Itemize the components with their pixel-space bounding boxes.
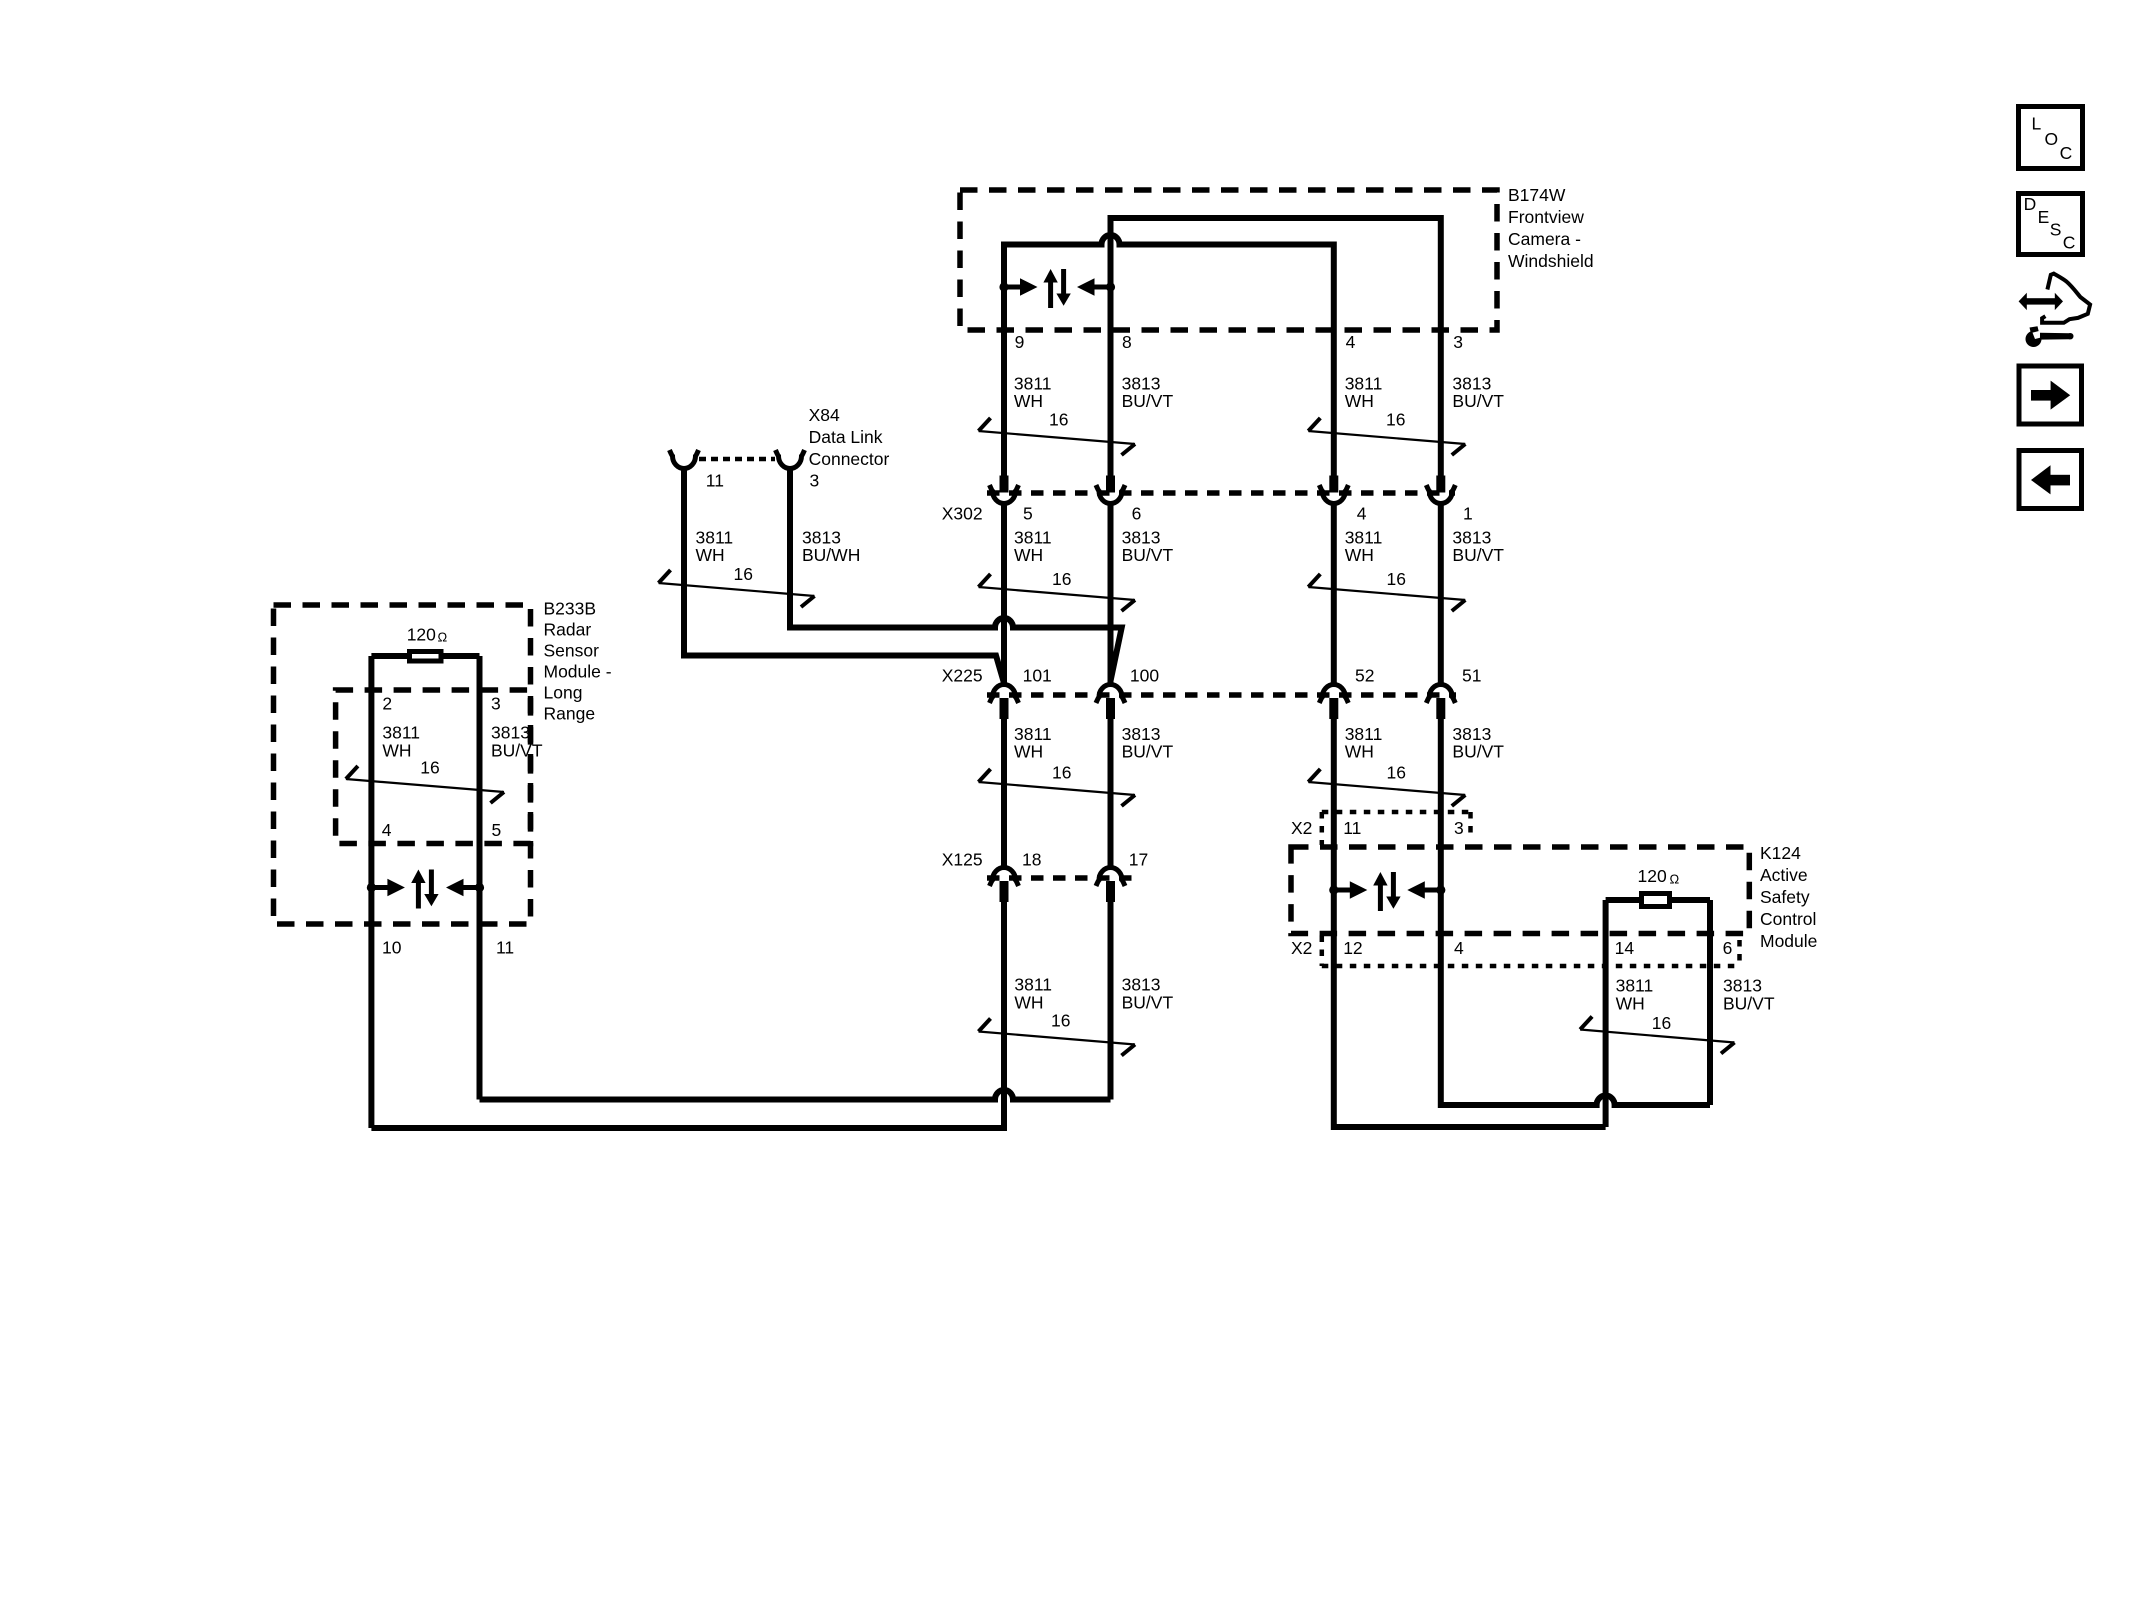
svg-text:51: 51 <box>1462 665 1481 685</box>
svg-text:BU/VT: BU/VT <box>1122 545 1174 565</box>
svg-text:BU/VT: BU/VT <box>491 740 543 760</box>
twisted pair symbol row C right <box>1308 769 1465 806</box>
X84 body dashed line <box>699 457 775 462</box>
wire 3811 WH from X84.11 to X225.101 <box>684 467 1004 684</box>
svg-text:Connector: Connector <box>809 449 890 469</box>
svg-text:100: 100 <box>1130 665 1159 685</box>
svg-text:1: 1 <box>1463 503 1473 523</box>
svg-text:Safety: Safety <box>1760 887 1810 907</box>
svg-text:4: 4 <box>1346 332 1356 352</box>
svg-text:Ω: Ω <box>438 630 448 645</box>
twisted pair symbol row A left <box>979 418 1136 455</box>
svg-text:14: 14 <box>1615 938 1635 958</box>
twisted pair symbol X84 pair <box>659 570 815 607</box>
svg-text:16: 16 <box>1386 409 1405 429</box>
X302 pin 6 terminal <box>1096 476 1141 524</box>
connector X125 dashed line <box>987 875 1140 881</box>
wire 3813 BU/VT B233B pin3 to pin11 and bottom loop <box>477 656 483 1100</box>
svg-text:BU/VT: BU/VT <box>1122 992 1174 1012</box>
icon vehicle data exchange with wrench <box>2019 274 2091 347</box>
svg-text:16: 16 <box>1052 762 1071 782</box>
svg-text:16: 16 <box>420 758 439 778</box>
X125 pin 18 terminal <box>990 849 1042 902</box>
svg-text:WH: WH <box>1616 993 1645 1013</box>
wire 3811 WH X225.101 to X125.18 <box>1001 719 1007 866</box>
wire 3811 WH X125.18 down to bottom left loop <box>371 902 1004 1128</box>
svg-text:3: 3 <box>810 470 820 490</box>
svg-text:BU/VT: BU/VT <box>1122 741 1174 761</box>
svg-text:3813: 3813 <box>491 722 530 742</box>
X302 pin 5 terminal <box>990 476 1033 524</box>
svg-text:WH: WH <box>1345 741 1374 761</box>
icon LOC box <box>2019 107 2083 169</box>
svg-text:Active: Active <box>1760 865 1808 885</box>
svg-text:WH: WH <box>1014 391 1043 411</box>
twisted pair symbol K124 pair <box>1580 1017 1734 1054</box>
svg-text:WH: WH <box>1345 391 1374 411</box>
component K124 Active Safety Control Module dashed box <box>1291 847 1749 934</box>
svg-text:6: 6 <box>1132 503 1142 523</box>
svg-text:6: 6 <box>1723 938 1733 958</box>
svg-text:Ω: Ω <box>1670 872 1680 887</box>
svg-text:120: 120 <box>1638 866 1667 886</box>
svg-text:9: 9 <box>1015 332 1025 352</box>
svg-text:11: 11 <box>706 470 724 490</box>
connector X2 bottom dotted row <box>1322 936 1740 967</box>
svg-text:Camera -: Camera - <box>1508 229 1581 249</box>
svg-text:16: 16 <box>1652 1013 1671 1033</box>
svg-text:Long: Long <box>544 682 583 702</box>
svg-text:X84: X84 <box>809 405 840 425</box>
svg-text:WH: WH <box>1014 545 1043 565</box>
svg-text:BU/WH: BU/WH <box>802 545 860 565</box>
CAN bus symbol inside B174W <box>999 269 1115 308</box>
svg-text:10: 10 <box>382 937 402 957</box>
svg-text:X225: X225 <box>942 665 983 685</box>
svg-text:Data Link: Data Link <box>809 427 883 447</box>
connector X225 dashed line <box>987 692 1456 698</box>
wire internal termination link B233B <box>371 653 479 659</box>
svg-text:B233B: B233B <box>544 598 597 618</box>
icon arrow next box <box>2019 366 2082 424</box>
svg-text:Frontview: Frontview <box>1508 207 1584 227</box>
wire 3813 BU/VT X225.51 down to K124 and bottom loop with hop <box>1441 719 1710 1105</box>
svg-text:2: 2 <box>382 693 392 713</box>
X225 pin 52 terminal <box>1319 665 1374 719</box>
X225 pin 51 terminal <box>1426 665 1481 719</box>
X302 pin 1 terminal <box>1426 476 1472 524</box>
svg-text:16: 16 <box>734 564 753 584</box>
twisted pair symbol B233B pair <box>346 766 504 803</box>
wire 3813 BU/VT X125.17 down to bottom left loop with hop <box>480 902 1111 1100</box>
svg-text:11: 11 <box>496 937 514 957</box>
wire K124 pin 6 leg down to bottom loop <box>1707 900 1713 1105</box>
svg-text:3: 3 <box>491 693 501 713</box>
wire 3813 BU/WH from X84.3 to X225.100 with hop over WH wire <box>790 467 1122 682</box>
svg-text:3811: 3811 <box>382 722 420 742</box>
svg-text:12: 12 <box>1343 938 1362 958</box>
X84 pin 3 terminal cup <box>776 450 820 490</box>
wire K124 pin 14 leg down to bottom loop <box>1603 900 1609 1127</box>
svg-text:Module: Module <box>1760 931 1817 951</box>
icon DESC box <box>2019 194 2083 255</box>
svg-text:5: 5 <box>1023 503 1033 523</box>
wire B174W pin 8 to pin 3 (3813 BU/VT internal top link) <box>1111 218 1441 476</box>
svg-text:8: 8 <box>1122 332 1132 352</box>
svg-text:WH: WH <box>696 545 725 565</box>
svg-text:17: 17 <box>1129 849 1148 869</box>
svg-text:16: 16 <box>1049 409 1068 429</box>
B233B inner connector dashed box <box>336 690 531 844</box>
X125 pin 17 terminal <box>1096 849 1148 902</box>
svg-text:WH: WH <box>382 740 411 760</box>
svg-text:L: L <box>2032 113 2042 133</box>
wire 3811 WH X225.52 down to K124 and bottom loop <box>1334 719 1606 1127</box>
svg-text:BU/VT: BU/VT <box>1122 391 1174 411</box>
svg-text:E: E <box>2038 207 2050 227</box>
svg-text:C: C <box>2063 232 2076 252</box>
resistor 120 ohm K124 <box>1642 894 1670 907</box>
svg-text:C: C <box>2060 143 2073 163</box>
svg-text:X2: X2 <box>1291 938 1312 958</box>
connector X2 top dotted row <box>1322 812 1471 845</box>
X84 pin 11 terminal cup <box>670 450 724 490</box>
twisted pair symbol row B middle <box>979 574 1136 611</box>
svg-text:X2: X2 <box>1291 818 1312 838</box>
svg-text:B174W: B174W <box>1508 185 1566 205</box>
svg-text:WH: WH <box>1014 992 1043 1012</box>
svg-text:16: 16 <box>1387 762 1406 782</box>
svg-text:120: 120 <box>407 624 436 644</box>
wire internal termination link K124 <box>1606 897 1710 903</box>
svg-text:18: 18 <box>1022 849 1041 869</box>
X225 pin 101 terminal <box>990 665 1052 719</box>
svg-text:Control: Control <box>1760 909 1816 929</box>
twisted pair symbol row B right <box>1308 574 1465 611</box>
svg-text:BU/VT: BU/VT <box>1452 545 1504 565</box>
svg-text:16: 16 <box>1387 569 1406 589</box>
X302 pin 4 terminal <box>1319 476 1367 524</box>
CAN bus symbol inside K124 <box>1329 872 1445 911</box>
svg-text:Sensor: Sensor <box>544 640 600 660</box>
CAN bus symbol inside B233B <box>367 870 484 909</box>
svg-text:BU/VT: BU/VT <box>1452 391 1504 411</box>
svg-text:4: 4 <box>1454 938 1464 958</box>
svg-text:11: 11 <box>1343 818 1361 838</box>
svg-text:3: 3 <box>1453 332 1463 352</box>
wire 3813 BU/VT X302.6 to X225.100 <box>1108 504 1114 683</box>
wire 3811 WH X302.5 to X225.101 <box>1001 504 1007 683</box>
svg-text:5: 5 <box>492 820 502 840</box>
wire B174W pin 9 to pin 4 (3811 WH internal link) with hop over pin8 wire <box>1004 235 1334 475</box>
svg-text:3: 3 <box>1454 818 1464 838</box>
component B174W Frontview Camera - Windshield dashed box <box>960 190 1497 330</box>
svg-text:WH: WH <box>1345 545 1374 565</box>
connector X302 dashed line <box>987 490 1455 496</box>
svg-text:BU/VT: BU/VT <box>1452 741 1504 761</box>
wire 3813 BU/VT X302.1 to X225.51 <box>1438 504 1444 683</box>
wire 3811 WH B233B pin2 to pin10 and bottom loop <box>368 656 374 1128</box>
svg-text:16: 16 <box>1051 1011 1070 1031</box>
svg-text:D: D <box>2024 194 2037 214</box>
svg-text:BU/VT: BU/VT <box>1723 993 1775 1013</box>
svg-text:K124: K124 <box>1760 843 1801 863</box>
svg-text:WH: WH <box>1014 741 1043 761</box>
icon arrow back box <box>2019 451 2082 509</box>
X225 pin 100 terminal <box>1096 665 1159 719</box>
svg-text:S: S <box>2050 219 2062 239</box>
resistor 120 ohm B233B <box>410 652 442 662</box>
component B233B Radar Sensor Module - Long Range outer dashed box <box>274 605 531 924</box>
svg-text:X125: X125 <box>942 849 983 869</box>
svg-text:52: 52 <box>1355 665 1374 685</box>
twisted pair symbol row C middle <box>979 769 1136 806</box>
svg-text:Windshield: Windshield <box>1508 251 1594 271</box>
twisted pair symbol row A right <box>1308 418 1465 455</box>
svg-text:4: 4 <box>1357 503 1367 523</box>
svg-text:101: 101 <box>1023 665 1052 685</box>
svg-text:16: 16 <box>1052 569 1071 589</box>
svg-text:Module -: Module - <box>544 661 612 681</box>
svg-text:Radar: Radar <box>544 619 592 639</box>
wire 3811 WH X302.4 to X225.52 <box>1331 504 1337 683</box>
svg-text:X302: X302 <box>942 503 983 523</box>
twisted pair symbol row D <box>979 1019 1136 1056</box>
svg-text:4: 4 <box>382 820 392 840</box>
wire 3813 BU/VT X225.100 to X125.17 <box>1108 719 1114 866</box>
svg-text:Range: Range <box>544 703 596 723</box>
svg-text:O: O <box>2045 129 2059 149</box>
